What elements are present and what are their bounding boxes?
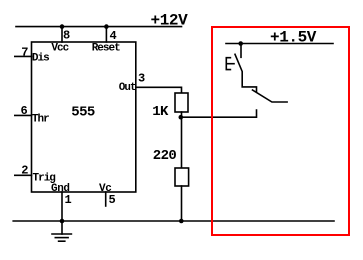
svg-text:220: 220 <box>153 148 177 164</box>
svg-text:7: 7 <box>21 46 28 60</box>
svg-text:Reset: Reset <box>92 43 120 55</box>
svg-text:+1.5V: +1.5V <box>270 28 317 46</box>
svg-text:2: 2 <box>21 164 28 178</box>
svg-text:1K: 1K <box>152 104 169 120</box>
svg-text:Dis: Dis <box>32 53 49 65</box>
svg-text:Out: Out <box>119 82 136 94</box>
svg-text:Vcc: Vcc <box>51 43 68 55</box>
svg-text:3: 3 <box>138 72 145 86</box>
svg-text:6: 6 <box>21 104 28 118</box>
svg-text:5: 5 <box>109 193 116 207</box>
svg-text:555: 555 <box>71 105 95 121</box>
svg-text:Vc: Vc <box>99 183 111 195</box>
svg-text:+12V: +12V <box>151 12 189 30</box>
svg-text:Thr: Thr <box>32 114 49 126</box>
svg-text:4: 4 <box>110 29 117 43</box>
svg-text:8: 8 <box>63 29 70 43</box>
svg-text:Gnd: Gnd <box>51 183 70 195</box>
